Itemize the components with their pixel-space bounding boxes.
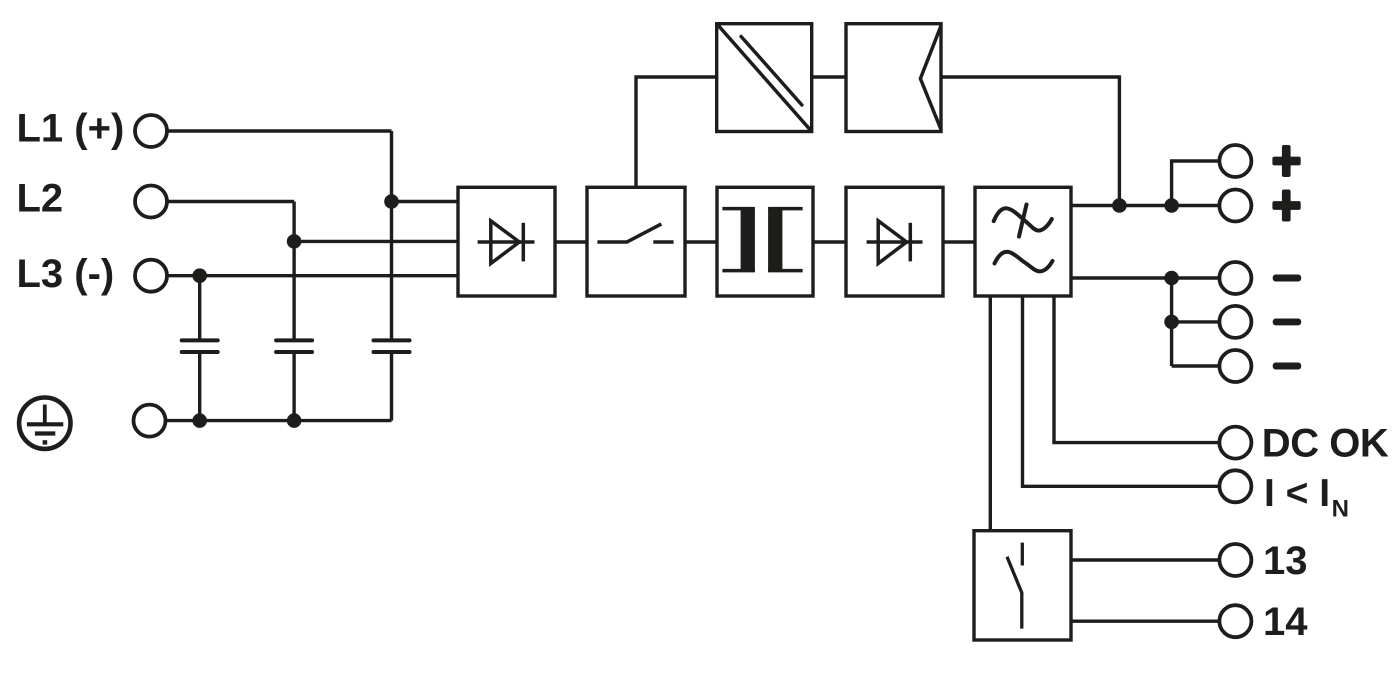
terminal PE [134,405,166,437]
wire relay to terminal 13 [1071,558,1220,561]
label plus 2 [1272,190,1300,222]
terminal -1 [1219,262,1251,294]
output diode symbol [867,221,923,264]
terminal L3 [135,260,167,292]
rectifier block box [458,187,555,296]
wire filter to I<IN terminal [1023,296,1220,486]
limiter chevron symbol [920,26,941,130]
junction dot L1/rectifier [384,194,399,209]
transformer symbol [722,209,802,272]
switch block box [587,187,685,296]
wire filter to DC OK terminal [1054,296,1220,443]
junction dot minus branch 2 [1164,315,1179,330]
svg-text:DC OK: DC OK [1262,422,1389,466]
svg-text:13: 13 [1263,539,1308,583]
transformer block box [717,187,813,296]
relay block box [974,531,1071,640]
capacitor C3 plates [374,340,410,352]
junction dot L3/capacitor C1 [192,268,207,283]
terminal 13 [1219,544,1251,576]
label plus 1 [1272,145,1300,177]
terminal -3 [1219,350,1251,382]
svg-text:L1 (+): L1 (+) [17,107,125,151]
wire branch to terminal -2 [1172,320,1220,323]
wire capacitor C2 lower lead [292,354,295,421]
wire L2 vertical bus x=294.1 [292,202,295,339]
junction dot PE bus / C1 [192,413,207,428]
terminal L1 [135,115,167,147]
switch contact symbol [597,224,673,242]
terminal +1 [1219,145,1251,177]
wire rectifier to switch [555,240,587,243]
wire bottom PE bus [164,419,392,422]
junction dot PE bus / C2 [287,413,302,428]
capacitor C2 plates [276,340,312,352]
terminal -2 [1219,306,1251,338]
wire branch up to terminal +1 [1172,161,1220,206]
label minus 2 [1273,318,1302,325]
DC/DC converter block box [717,24,812,132]
capacitor C1 plates [182,340,218,352]
wire L3 horizontal to rectifier [167,274,459,277]
wire transformer to output diode [813,240,846,243]
label minus 3 [1273,363,1302,370]
junction dot minus branch 1 [1164,271,1179,286]
wire L1 vertical bus x=391.5 [390,131,393,339]
terminal L2 [135,186,167,218]
ground PE symbol [19,398,70,449]
filter AC wave crossed symbol [994,205,1052,237]
wire filter minus output [1071,276,1220,279]
relay contact symbol [1007,543,1022,629]
wire L2 branch to rectifier [294,240,458,243]
wire capacitor C1 lower lead [198,354,201,421]
wire switch to transformer [685,240,717,243]
terminal I<IN [1219,470,1251,502]
wire filter to relay block [989,296,992,531]
DC/DC converter diagonal symbol [717,24,812,132]
rectifier diode symbol [478,221,535,264]
junction dot L2/rectifier [287,234,302,249]
junction dot plus branch [1164,198,1179,213]
svg-text:14: 14 [1263,600,1308,644]
filter block box [975,187,1071,296]
wire switch top to DC/DC converter [636,77,717,187]
svg-text:I < IN: I < IN [1264,472,1349,523]
label minus 1 [1273,275,1302,282]
wire branch to terminal -3 [1172,364,1220,367]
svg-text:L2: L2 [17,176,64,220]
terminal +2 [1219,190,1251,222]
wire filter plus output [1071,204,1220,207]
wire L2 horizontal from terminal to corner [167,200,295,203]
wire DC/DC converter to limiter [812,75,846,78]
junction dot limiter output node [1112,198,1127,213]
wire relay to terminal 14 [1071,620,1220,623]
wire L1 horizontal from terminal to corner [167,129,392,132]
svg-text:L3 (-): L3 (-) [17,252,115,296]
wire L3 vertical bus x=199.7 [198,276,201,339]
terminal 14 [1219,605,1251,637]
wire capacitor C3 lower lead [390,354,393,421]
wire minus vertical branch [1170,278,1173,366]
output diode block box [846,187,943,296]
terminal DC OK [1219,427,1251,459]
wire L1 branch to rectifier [392,200,459,203]
wire output diode to filter [943,240,975,243]
limiter block box [846,24,941,132]
filter DC wave symbol [995,252,1053,272]
wire limiter to output node [941,77,1119,206]
